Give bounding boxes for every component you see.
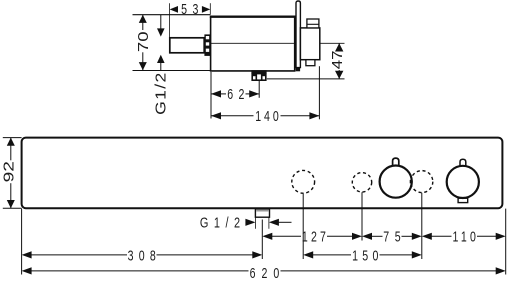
thermostat handle knob xyxy=(393,158,399,165)
valve body side xyxy=(211,17,295,71)
dim 75 xyxy=(362,229,422,245)
dim 92 arrows xyxy=(7,138,15,146)
svg-text:G1/2: G1/2 xyxy=(153,71,170,115)
svg-text:53: 53 xyxy=(181,2,204,18)
nut facet left xyxy=(255,74,257,81)
connector bottom step xyxy=(306,60,315,66)
svg-text:140: 140 xyxy=(255,109,281,125)
dashed circle middle xyxy=(352,173,371,192)
extension from left dashed circle xyxy=(302,193,304,259)
plate bottom tab xyxy=(296,68,300,72)
outlet nut side body xyxy=(252,74,266,81)
svg-text:620: 620 xyxy=(250,265,286,281)
dim 70 arrows xyxy=(139,15,147,23)
dim 140 arrows xyxy=(211,112,221,119)
extension right body edge xyxy=(505,209,507,275)
svg-text:308: 308 xyxy=(128,248,161,264)
dim 140 extension xyxy=(318,66,320,119)
G1/2 extension lines xyxy=(255,217,257,229)
extension from right dashed circle xyxy=(421,193,423,259)
dashed circle left xyxy=(292,170,315,193)
connector top step inner line xyxy=(307,23,319,25)
svg-text:127: 127 xyxy=(302,229,329,245)
G1/2 right leader arrow xyxy=(269,219,292,226)
volume handle circle xyxy=(447,166,479,198)
thermostat marker tick xyxy=(410,180,413,183)
dim 53 extensions xyxy=(169,3,171,37)
centerline axis xyxy=(211,42,345,44)
spout serrated joint xyxy=(204,34,210,56)
handle pointer down arrow xyxy=(157,15,165,37)
shelf top thick edge xyxy=(210,16,297,18)
volume handle knob xyxy=(460,159,466,166)
svg-text:75: 75 xyxy=(383,229,406,245)
svg-text:110: 110 xyxy=(452,229,479,245)
dim 127 xyxy=(262,229,362,245)
dim 62 line xyxy=(211,93,226,95)
extension left body edge xyxy=(21,209,23,275)
nut flange gray strip xyxy=(256,210,269,212)
dim 62 arrows xyxy=(211,90,221,97)
dashed circle right xyxy=(411,171,433,193)
dim 92 line xyxy=(10,138,12,161)
svg-text:62: 62 xyxy=(227,86,250,102)
dim 47 line xyxy=(338,43,340,50)
dim 53 arrows xyxy=(170,6,178,13)
dim 47 bottom extension xyxy=(267,78,345,80)
dim 70 top extension line xyxy=(133,14,211,16)
nut facet right xyxy=(261,74,263,81)
dim 620 xyxy=(22,265,506,281)
dim 62 extensions xyxy=(210,72,212,119)
wall connector main block xyxy=(300,28,319,60)
dim 47 arrows xyxy=(335,43,343,51)
extension from nut center xyxy=(261,220,263,260)
svg-text:70: 70 xyxy=(135,31,152,52)
dim 110 xyxy=(422,229,506,245)
front body xyxy=(22,138,503,209)
nut top corner chamfers xyxy=(253,74,256,77)
svg-text:47: 47 xyxy=(330,50,346,69)
outlet nut side flange xyxy=(251,70,266,73)
dim 92 extensions xyxy=(3,137,22,139)
svg-text:150: 150 xyxy=(352,248,383,264)
connector top step xyxy=(307,19,319,28)
spout handle xyxy=(170,38,204,53)
handle pointer up arrow xyxy=(157,55,165,71)
volume handle bottom tab xyxy=(458,198,468,202)
dim 308 xyxy=(22,248,263,264)
dim 150 xyxy=(303,248,422,264)
wall escutcheon plate xyxy=(296,1,300,68)
dim 70 bottom extension xyxy=(133,70,211,72)
extension from middle dashed circle xyxy=(361,192,363,240)
dim 140 line xyxy=(211,115,254,117)
thermostat handle circle xyxy=(380,166,412,198)
svg-text:G1/2: G1/2 xyxy=(200,214,246,231)
svg-text:92: 92 xyxy=(1,161,17,182)
dim 70 line xyxy=(142,15,144,30)
outlet nut front xyxy=(255,209,269,217)
G1/2 left leader arrow xyxy=(245,219,255,226)
